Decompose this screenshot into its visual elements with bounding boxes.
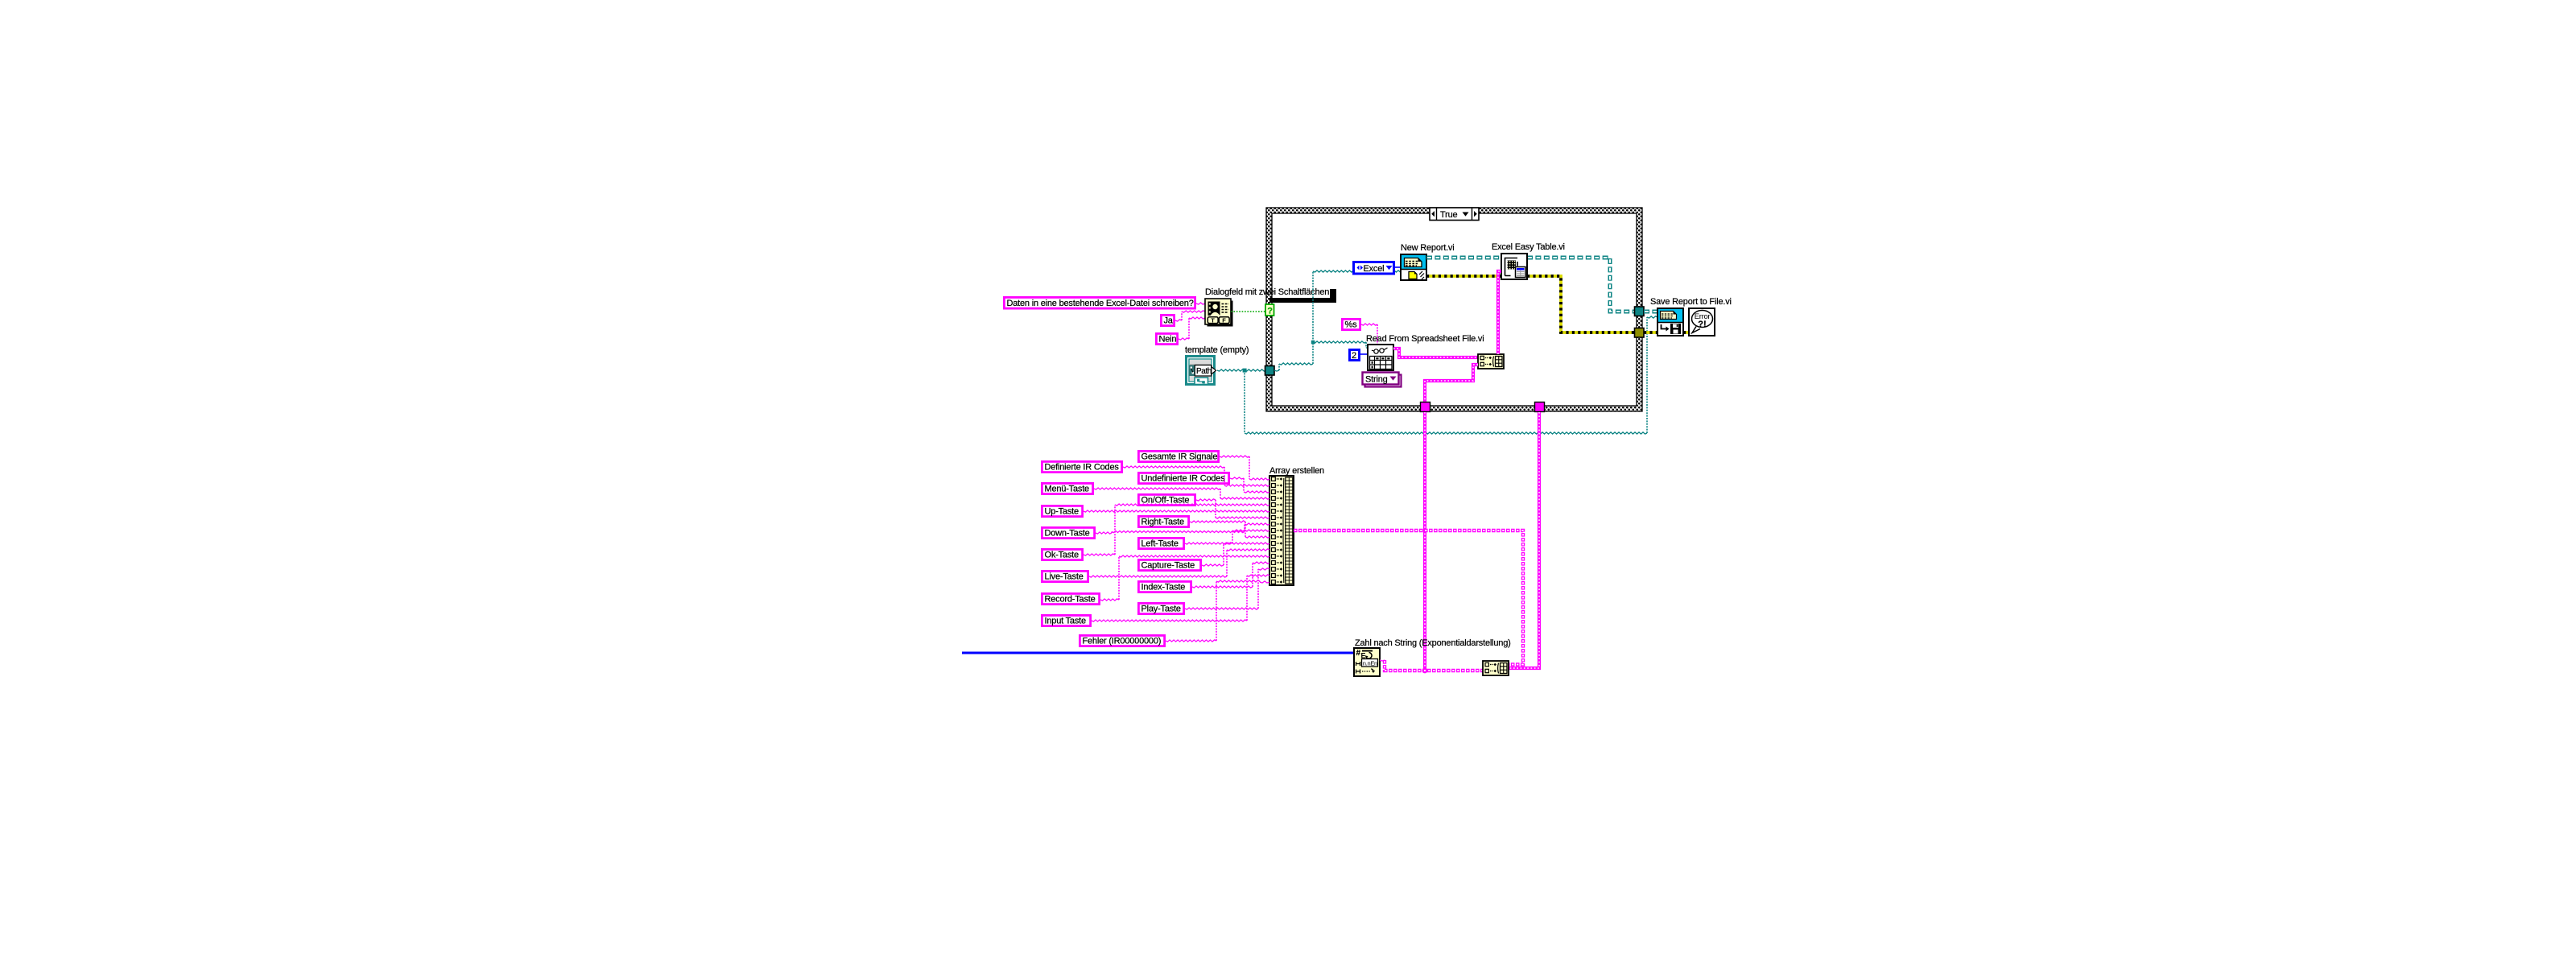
wire Zahl out — [1380, 660, 1385, 661]
svg-text:2: 2 — [1352, 351, 1356, 361]
svg-text:T: T — [1211, 316, 1215, 324]
svg-text:Input Taste: Input Taste — [1045, 617, 1086, 626]
wire Ok-Taste — [1084, 504, 1269, 555]
string constant "Ja" — [1161, 315, 1174, 325]
label "Dialogfeld mit zwei Schaltflächen" — [1205, 287, 1329, 297]
polymorphic selector "String" — [1363, 373, 1402, 387]
string constant "On/Off-Taste" — [1138, 494, 1195, 505]
string constant "Down-Taste" — [1042, 527, 1094, 538]
path wire to Read From Spreadsheet — [1313, 341, 1368, 348]
path control: template (empty) — [1187, 357, 1216, 385]
New Report.vi icon — [1401, 254, 1426, 280]
wire message to dialog — [1196, 303, 1205, 304]
label "Excel Easy Table.vi" — [1492, 242, 1565, 252]
wire Up-Taste — [1084, 510, 1269, 512]
svg-text:Up-Taste: Up-Taste — [1045, 507, 1079, 517]
string constant "Record-Taste" — [1042, 593, 1099, 604]
Excel Easy Table.vi icon — [1501, 254, 1527, 279]
svg-text:Fehler (IR00000000): Fehler (IR00000000) — [1083, 637, 1162, 646]
label selection bar — [1269, 289, 1336, 303]
Save Report to File.vi icon — [1657, 308, 1683, 336]
label "Read From Spreadsheet File.vi" — [1366, 334, 1484, 344]
string constant "Input Taste" — [1042, 615, 1090, 625]
string constant "Undefinierte IR Codes" — [1138, 473, 1228, 483]
svg-text:Path: Path — [1196, 367, 1212, 376]
wire Index-Taste — [1192, 562, 1269, 588]
dialog VI icon (Two Button Dialog) — [1205, 299, 1233, 327]
string constant "Capture-Taste" — [1138, 559, 1200, 570]
path wire bottom run — [1245, 432, 1647, 434]
string constant "Gesamte IR Signale" — [1138, 451, 1218, 461]
2D string array wire RFSF out — [1393, 349, 1478, 357]
svg-text:Down-Taste: Down-Taste — [1045, 529, 1090, 539]
svg-text:Capture-Taste: Capture-Taste — [1141, 561, 1195, 571]
wire Undefinierte IR Codes — [1230, 477, 1269, 493]
svg-text:Daten in eine bestehende Excel: Daten in eine bestehende Excel-Datei sch… — [1007, 299, 1194, 308]
svg-text:Excel Easy Table.vi: Excel Easy Table.vi — [1492, 242, 1565, 252]
path wire down — [1244, 370, 1245, 433]
wire Play-Taste — [1185, 568, 1269, 609]
wire Capture-Taste — [1202, 543, 1269, 566]
wire junction — [1422, 668, 1428, 674]
2D array wire tunnel1 down — [1423, 412, 1426, 671]
svg-text:Record-Taste: Record-Taste — [1045, 595, 1096, 605]
wire Gesamte IR Signale — [1220, 456, 1269, 480]
svg-text:n.nEn: n.nEn — [1363, 659, 1377, 667]
wire Record-Taste — [1100, 555, 1269, 601]
svg-text:New Report.vi: New Report.vi — [1401, 243, 1454, 253]
wire Fehler — [1166, 580, 1269, 642]
case selector: True — [1430, 208, 1479, 221]
2D array wire to bottom tunnel 1 — [1425, 365, 1478, 412]
numeric array wire (blue) — [962, 652, 1354, 654]
1D string array wire Array erstellen out — [1294, 530, 1523, 665]
string constant "Play-Taste" — [1138, 603, 1183, 613]
wire enum to New Report — [1395, 266, 1402, 268]
svg-text:Index-Taste: Index-Taste — [1141, 583, 1186, 592]
tunnel path (left border) — [1265, 366, 1275, 376]
svg-text:Excel: Excel — [1364, 264, 1385, 274]
refnum wire to Save Report — [1644, 310, 1657, 314]
tunnel 2D array 2 (bottom border) — [1535, 402, 1545, 412]
string constant "Nein" — [1156, 333, 1177, 344]
svg-text:Right-Taste: Right-Taste — [1141, 518, 1185, 527]
error wire — [1426, 275, 1501, 278]
string constant "Fehler (IR00000000)" — [1080, 635, 1164, 646]
label "New Report.vi" — [1401, 243, 1454, 253]
label "template (empty)" — [1185, 345, 1249, 355]
svg-text:F: F — [1222, 316, 1226, 324]
svg-text:?!: ?! — [1698, 320, 1706, 329]
label "Save Report to File.vi" — [1650, 297, 1732, 307]
2D array wire tunnel2 down to build node — [1509, 412, 1539, 668]
1D string array wire Zahl out — [1385, 660, 1483, 671]
case selector tunnel ? — [1265, 304, 1274, 316]
svg-text:Play-Taste: Play-Taste — [1141, 605, 1181, 614]
enum constant "Excel" — [1354, 262, 1394, 275]
string constant "Index-Taste" — [1138, 581, 1191, 592]
svg-text:?: ? — [1267, 307, 1273, 316]
Array erstellen (Build Array) node — [1269, 476, 1294, 585]
report refnum wire — [1426, 256, 1501, 260]
svg-text:Save Report to File.vi: Save Report to File.vi — [1650, 297, 1732, 307]
case structure frame (True case) — [1266, 208, 1642, 411]
wire Input Taste — [1092, 575, 1269, 621]
svg-text:Array erstellen: Array erstellen — [1269, 466, 1324, 476]
build array node (bottom) — [1483, 661, 1509, 675]
tunnel refnum (right border) — [1635, 307, 1645, 316]
wire "Ja" to dialog — [1175, 311, 1205, 321]
string constant "Menü-Taste" — [1042, 483, 1092, 493]
svg-text:Live-Taste: Live-Taste — [1045, 572, 1084, 582]
svg-text:Ok-Taste: Ok-Taste — [1045, 551, 1079, 560]
numeric constant "2" — [1350, 350, 1360, 361]
svg-text:Definierte IR Codes: Definierte IR Codes — [1045, 463, 1120, 473]
string constant "Up-Taste" — [1042, 506, 1082, 516]
svg-text:Left-Taste: Left-Taste — [1141, 539, 1179, 549]
label "Zahl nach String (Exponentialdarstellung)" — [1355, 638, 1511, 648]
svg-text:String: String — [1365, 375, 1388, 385]
path wire inside case — [1274, 270, 1402, 371]
string constant "Live-Taste" — [1042, 571, 1088, 581]
build array node (in case) — [1478, 354, 1504, 369]
string constant "%s" — [1342, 319, 1360, 329]
wire 2 to RFSF — [1360, 353, 1368, 355]
path wire up to Save Report — [1646, 317, 1648, 433]
svg-text:%s: %s — [1345, 320, 1358, 330]
wire Menü-Taste — [1094, 488, 1269, 499]
wire Down-Taste — [1096, 523, 1269, 534]
Read From Spreadsheet File.vi icon — [1368, 345, 1393, 370]
Zahl nach String node icon — [1354, 648, 1380, 676]
svg-text:Dialogfeld mit zwei Schaltfläc: Dialogfeld mit zwei Schaltflächen — [1205, 287, 1329, 297]
svg-text:Zahl nach String (Exponentiald: Zahl nach String (Exponentialdarstellung… — [1355, 638, 1511, 648]
wire Right-Taste — [1190, 521, 1269, 538]
svg-text:On/Off-Taste: On/Off-Taste — [1141, 496, 1190, 506]
error wire to error handler — [1683, 331, 1689, 334]
wire On/Off-Taste — [1196, 499, 1269, 518]
wire %s down — [1377, 324, 1378, 345]
boolean wire dialog result — [1231, 311, 1265, 312]
error wire to Save Report — [1644, 331, 1657, 334]
string constant "Definierte IR Codes" — [1042, 461, 1121, 472]
wire %s — [1361, 324, 1377, 325]
svg-text:template (empty): template (empty) — [1185, 345, 1249, 355]
string constant "Left-Taste" — [1138, 538, 1183, 548]
wire junction — [1243, 369, 1247, 373]
error wire to tunnel — [1527, 276, 1635, 332]
wire Live-Taste — [1089, 549, 1269, 577]
wire Left-Taste — [1185, 530, 1269, 544]
string constant "Daten in eine bestehende Excel-Datei schreiben?" — [1004, 297, 1195, 308]
svg-text:Gesamte IR Signale: Gesamte IR Signale — [1141, 452, 1218, 462]
string constant "Ok-Taste" — [1042, 549, 1082, 559]
svg-text:Menü-Taste: Menü-Taste — [1045, 485, 1090, 494]
path wire into Save Report — [1647, 316, 1657, 318]
path wire template out — [1217, 369, 1266, 371]
label "Array erstellen" — [1269, 466, 1324, 476]
wire Definierte IR Codes — [1123, 466, 1269, 486]
svg-text:True: True — [1440, 210, 1457, 220]
Simple Error Handler.vi icon — [1689, 308, 1715, 336]
string constant "Right-Taste" — [1138, 516, 1188, 526]
2D array wire to Excel Easy Table — [1498, 271, 1501, 354]
svg-text:Ja: Ja — [1164, 316, 1174, 326]
svg-text:Read From Spreadsheet File.vi: Read From Spreadsheet File.vi — [1366, 334, 1484, 344]
svg-text:Undefinierte IR Codes: Undefinierte IR Codes — [1141, 474, 1226, 484]
report refnum wire to tunnel — [1527, 258, 1637, 312]
wire junction — [1311, 341, 1315, 345]
wire "Nein" to dialog — [1179, 317, 1205, 340]
tunnel error (right border) — [1635, 328, 1645, 338]
tunnel 2D array 1 (bottom border) — [1421, 402, 1430, 412]
svg-text:Nein: Nein — [1159, 335, 1177, 345]
